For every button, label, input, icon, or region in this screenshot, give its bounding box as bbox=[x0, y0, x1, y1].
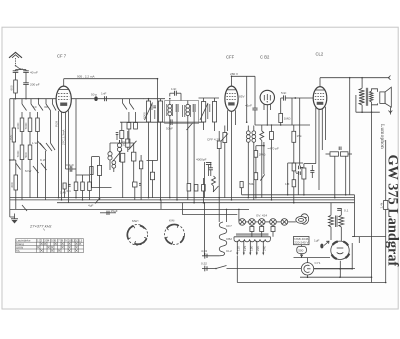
resistor small left det bbox=[240, 182, 243, 195]
capacitor osc upper bbox=[116, 133, 119, 140]
svg-text:≈470 pF: ≈470 pF bbox=[268, 146, 279, 150]
svg-text:4µF: 4µF bbox=[88, 204, 94, 208]
wire speaker return bbox=[356, 95, 392, 283]
resistor osc anode bbox=[97, 157, 101, 200]
oscillator coil L2 bbox=[117, 140, 121, 162]
main bus 1 bbox=[10, 197, 355, 199]
bandfilter 1 box L bbox=[142, 99, 150, 198]
bandfilter 2 can outline bbox=[165, 101, 199, 124]
svg-text:CF 7: CF 7 bbox=[57, 54, 67, 59]
resistor 1,4k right rail bbox=[380, 140, 388, 283]
bandfilter hatching extra bbox=[152, 104, 210, 120]
speaker bbox=[380, 87, 392, 107]
resistor 15k det bbox=[292, 125, 302, 203]
tube V2 pin leads bbox=[228, 110, 236, 200]
resistor zig screen bbox=[212, 176, 216, 192]
oscillator coil box wires bbox=[92, 157, 112, 188]
label IF freq bbox=[29, 223, 51, 230]
svg-text:≈1nF: ≈1nF bbox=[245, 104, 252, 108]
wire bottom right h2 bbox=[300, 261, 372, 277]
mains switch bbox=[215, 266, 355, 270]
tube V4 pin leads bbox=[316, 107, 326, 190]
label 4uF bbox=[88, 199, 99, 208]
capacitor 41nF bbox=[23, 70, 38, 75]
capacitor bf2 a bbox=[176, 104, 178, 124]
bandfilter 3 trimmer bbox=[200, 103, 208, 120]
resistor 600 bbox=[10, 73, 18, 99]
mixer grid line bbox=[120, 121, 204, 123]
capacitor 0,1uF left bbox=[66, 163, 77, 172]
trimmer arrow grid bbox=[187, 123, 193, 130]
svg-text:50 p: 50 p bbox=[91, 92, 97, 96]
capacitor padder top bbox=[170, 87, 181, 101]
bandfilter 3 box L bbox=[202, 98, 206, 130]
capacitor small mid bbox=[139, 183, 142, 185]
svg-text:2MΩ: 2MΩ bbox=[259, 153, 266, 157]
svg-text:1,4k: 1,4k bbox=[380, 202, 384, 208]
wire anode line 905 bbox=[64, 74, 158, 78]
mains transformer winding bbox=[234, 234, 271, 242]
switch S6 bbox=[52, 99, 54, 104]
svg-text:7: 7 bbox=[58, 239, 60, 243]
main bus 3 bbox=[57, 202, 355, 204]
resistor cathode CL2 bbox=[295, 164, 316, 195]
output transformer core bbox=[366, 88, 367, 106]
capacitor 200pF bbox=[23, 73, 40, 99]
svg-text:4: 4 bbox=[48, 239, 50, 243]
capacitor 4000pF bbox=[196, 158, 211, 165]
misc vertical feeders bbox=[161, 162, 227, 256]
svg-text:110: 110 bbox=[236, 246, 240, 251]
capacitor 0,1 small bbox=[67, 184, 72, 193]
table header text bbox=[16, 239, 83, 253]
oscillator coil L1 bbox=[108, 143, 112, 170]
resistor osc upper b bbox=[122, 131, 130, 152]
resistor mixer b bbox=[134, 112, 138, 129]
svg-text:0,1µF: 0,1µF bbox=[66, 163, 74, 167]
table chart bbox=[16, 239, 84, 253]
svg-text:7000: 7000 bbox=[16, 150, 20, 157]
svg-text:27×377 kHz: 27×377 kHz bbox=[29, 223, 51, 228]
capacitor bead 50p bbox=[91, 92, 98, 101]
switch blade AF bbox=[260, 174, 264, 180]
capacitor 15uF bbox=[100, 209, 118, 215]
tube CY1 bbox=[301, 261, 320, 275]
wire input bus bbox=[10, 98, 57, 100]
switch column mixer bbox=[123, 99, 135, 110]
svg-text:600: 600 bbox=[10, 182, 14, 187]
bandfilter 2 coil b bbox=[186, 101, 190, 124]
capacitor cathode bbox=[310, 165, 314, 178]
svg-text:0,1: 0,1 bbox=[344, 209, 349, 213]
svg-text:CL2: CL2 bbox=[316, 52, 324, 57]
capacitor can 500 bbox=[297, 245, 307, 257]
svg-text:1000: 1000 bbox=[16, 122, 20, 129]
resistor 7M bbox=[81, 175, 85, 200]
IF transformer coil b bbox=[252, 126, 256, 200]
wire bf3 top bbox=[199, 97, 220, 99]
svg-text:1µF: 1µF bbox=[314, 239, 320, 243]
svg-text:C B2: C B2 bbox=[260, 54, 270, 59]
tube V2 CFF bbox=[225, 86, 238, 111]
lamp dropper resistors bbox=[250, 225, 275, 237]
resistor screen bbox=[217, 131, 221, 222]
resistor 1000 bbox=[16, 112, 24, 132]
svg-text:220-240 V: 220-240 V bbox=[294, 240, 309, 244]
svg-text:40 nF: 40 nF bbox=[30, 70, 38, 74]
output transformer secondary bbox=[370, 89, 378, 105]
scale lamp oval bbox=[296, 217, 306, 224]
svg-text:M.W: M.W bbox=[25, 169, 31, 173]
AF coupling cluster: resistor 2M bbox=[254, 146, 266, 173]
bandfilter 1 box R bbox=[158, 99, 162, 200]
svg-text:7000: 7000 bbox=[24, 122, 28, 129]
mains terminal A bbox=[201, 249, 223, 259]
wire det feeders bbox=[288, 163, 303, 195]
resistor 500 bbox=[24, 145, 32, 160]
resistor right b bbox=[335, 152, 352, 198]
resistor 600b bbox=[10, 175, 18, 209]
resistor 10nF tail bbox=[187, 184, 191, 192]
wire CY1 top bbox=[294, 254, 331, 263]
lamp wiring bbox=[246, 221, 296, 223]
svg-text:5: 5 bbox=[51, 239, 53, 243]
svg-text:CFF: CFF bbox=[226, 54, 235, 59]
switch blade mid bbox=[40, 143, 47, 151]
resistor mixer a bbox=[127, 112, 131, 143]
svg-text:50k: 50k bbox=[249, 182, 254, 186]
resistor 50 bbox=[133, 182, 137, 200]
svg-text:150: 150 bbox=[249, 246, 253, 251]
svg-text:30: 30 bbox=[44, 105, 48, 109]
resistor osc grid bbox=[90, 167, 93, 175]
svg-text:9: 9 bbox=[65, 239, 67, 243]
svg-text:0,1: 0,1 bbox=[67, 189, 72, 193]
IF transformer coil a bbox=[246, 126, 250, 198]
svg-text:MW↑: MW↑ bbox=[132, 219, 139, 223]
capacitor tone b bbox=[296, 171, 300, 175]
svg-text:220: 220 bbox=[256, 246, 260, 251]
phono jack oval bbox=[300, 214, 308, 224]
switch blade bbox=[31, 104, 36, 111]
detector bus bbox=[255, 124, 310, 126]
capacitor det a bbox=[270, 125, 274, 200]
svg-text:CL2: CL2 bbox=[226, 249, 232, 253]
switch S2 bbox=[21, 99, 23, 104]
switch S7 bbox=[16, 163, 21, 170]
svg-text:1,45: 1,45 bbox=[60, 191, 66, 195]
heater chain squiggle bbox=[219, 222, 232, 256]
switch blade wave a bbox=[51, 143, 56, 150]
svg-text:GV. 424: GV. 424 bbox=[256, 214, 267, 218]
svg-text:P.08: P.08 bbox=[55, 121, 59, 127]
svg-text:15k: 15k bbox=[297, 134, 302, 138]
svg-text:K.W: K.W bbox=[40, 158, 46, 162]
resistor 600 rail bbox=[8, 99, 15, 160]
capacitor 40nF bbox=[13, 67, 24, 72]
switch blade mid2 bbox=[46, 143, 52, 151]
main bus 5 bbox=[183, 214, 238, 216]
capacitor 1uF rect bbox=[314, 239, 329, 249]
dial lamp 2 bbox=[249, 219, 256, 226]
switch blade wave b bbox=[41, 163, 47, 170]
dial lamp 3 bbox=[258, 219, 265, 226]
svg-text:500: 500 bbox=[298, 249, 303, 253]
dial lamp 4 bbox=[270, 219, 277, 226]
bus 5 drop bbox=[182, 203, 184, 215]
switch blade bbox=[53, 104, 57, 111]
capacitor 50pF grid bbox=[166, 119, 173, 130]
svg-text:CY1: CY1 bbox=[315, 261, 321, 265]
ground symbol bbox=[10, 214, 18, 224]
bandfilter 3 box R bbox=[212, 98, 216, 131]
tube V3 CB2 bbox=[260, 90, 274, 104]
right bus stub bbox=[242, 195, 355, 237]
resistor tail3 bbox=[202, 178, 206, 203]
svg-text:4000pF: 4000pF bbox=[196, 158, 207, 162]
tube V4 anode lead bbox=[319, 78, 321, 87]
capacitor 5nF bbox=[281, 91, 292, 101]
tube V1 pin leads bbox=[59, 111, 69, 203]
tube V4 CL2 bbox=[313, 87, 327, 110]
capacitor bf2 b bbox=[193, 104, 195, 124]
main bus 4 bbox=[10, 208, 249, 210]
svg-text:3: 3 bbox=[44, 239, 46, 243]
power loop left bbox=[236, 256, 238, 283]
table x marks bbox=[37, 243, 81, 252]
svg-text:13: 13 bbox=[79, 239, 83, 243]
main bus 2 bbox=[10, 199, 355, 201]
oscillator coil L1b bbox=[112, 161, 116, 172]
dial lamp 1 bbox=[239, 219, 246, 226]
svg-text:1nF: 1nF bbox=[101, 91, 106, 95]
filter choke core bbox=[336, 216, 337, 228]
svg-text:GW 375 Landgraf: GW 375 Landgraf bbox=[385, 155, 400, 267]
trimmer arrow osc upper bbox=[129, 141, 137, 150]
wire HT drop bbox=[157, 79, 159, 161]
mains taps bbox=[236, 241, 266, 256]
wire antenna caps top bbox=[16, 69, 27, 71]
switch S1 antenna bbox=[15, 65, 21, 69]
svg-text:600: 600 bbox=[8, 135, 12, 140]
wire rect top feed bbox=[352, 237, 386, 243]
antenna bbox=[9, 52, 22, 65]
wire AF junction bbox=[256, 142, 279, 174]
capacitor bf1 bbox=[153, 106, 156, 108]
resistor tail2 bbox=[194, 185, 198, 192]
switch blade bbox=[46, 104, 51, 111]
svg-text:85V: 85V bbox=[239, 95, 245, 99]
switch S4 bbox=[38, 99, 40, 104]
switch S3 bbox=[30, 99, 32, 104]
dial lamp feed bbox=[238, 209, 240, 222]
svg-text:1MΩ: 1MΩ bbox=[284, 117, 291, 121]
trimmer arrow osc bbox=[113, 150, 122, 161]
capacitor screen bbox=[209, 162, 213, 176]
svg-text:Lumophon: Lumophon bbox=[379, 124, 385, 149]
tube V3 pins bbox=[264, 104, 271, 125]
wire mid links bbox=[22, 132, 44, 149]
switch S8 bbox=[22, 205, 27, 211]
resistor 50k bbox=[249, 173, 258, 198]
switch blade det bbox=[213, 186, 219, 192]
filter choke 2 bbox=[339, 208, 344, 243]
volume pot bbox=[221, 126, 228, 198]
rectifier CY2 bbox=[331, 241, 349, 259]
resistor IF zig bbox=[260, 125, 264, 198]
bandfilter 1 trimmer bbox=[145, 103, 153, 121]
tube V1 anode top lead bbox=[63, 79, 65, 86]
resistor grid CL2 bbox=[285, 163, 296, 187]
svg-text:5nF: 5nF bbox=[281, 91, 286, 95]
resistor osc pad1 bbox=[121, 153, 125, 197]
resistor 1k bbox=[139, 155, 142, 200]
output transformer primary bbox=[359, 78, 365, 113]
rotary switch W1 bbox=[127, 219, 148, 245]
svg-text:200 pF: 200 pF bbox=[30, 83, 40, 87]
svg-text:L.W: L.W bbox=[32, 141, 38, 145]
resistor right a bbox=[326, 152, 339, 156]
capacitor tone a bbox=[299, 166, 304, 170]
svg-text:10: 10 bbox=[33, 105, 37, 109]
switch blade wave c bbox=[33, 166, 39, 173]
svg-text:1nF: 1nF bbox=[171, 87, 176, 91]
dial lamp 5 bbox=[281, 219, 288, 226]
svg-text:30: 30 bbox=[20, 67, 24, 71]
rotary switch W2 bbox=[165, 218, 185, 244]
bandfilter 2 coil a bbox=[168, 101, 172, 124]
resistor 30u bbox=[36, 112, 40, 132]
svg-text:6: 6 bbox=[55, 239, 57, 243]
svg-text:125: 125 bbox=[243, 246, 247, 251]
resistor 5k bbox=[147, 161, 158, 198]
wire left rail bbox=[9, 99, 11, 217]
resistor 15k bbox=[76, 175, 91, 200]
svg-text:KW↑: KW↑ bbox=[169, 218, 176, 222]
bandfilter 1 top wire bbox=[143, 98, 165, 100]
resistor 1,45 bbox=[60, 183, 66, 198]
wire bottom right h1 bbox=[314, 243, 353, 269]
svg-text:8: 8 bbox=[62, 239, 64, 243]
coupling cap 10nF bbox=[245, 76, 258, 125]
capacitor right small bbox=[339, 147, 341, 151]
wire bottom right h3 bbox=[237, 282, 385, 284]
svg-text:27C,1,3mA: 27C,1,3mA bbox=[62, 129, 66, 145]
wire lower links bbox=[10, 160, 30, 200]
capacitor 0,1uF right bbox=[337, 209, 348, 213]
capacitor 1nF series bbox=[101, 91, 106, 101]
wire det right bbox=[292, 97, 313, 166]
filter choke 1 bbox=[329, 203, 334, 240]
tube V2 anode lead bbox=[232, 76, 256, 122]
tube V1 CF7 bbox=[56, 86, 71, 112]
svg-text:905 , 2,2 mA: 905 , 2,2 mA bbox=[77, 74, 95, 78]
bandfilter 2 tail wires bbox=[170, 124, 194, 203]
wire grid line through tube bbox=[71, 98, 143, 100]
svg-text:240: 240 bbox=[262, 246, 266, 251]
wire wave column a bbox=[38, 111, 51, 200]
svg-text:2: 2 bbox=[41, 239, 43, 243]
output HT line bbox=[320, 76, 391, 80]
resistor 50n bbox=[74, 99, 78, 198]
resistor osc upper a bbox=[120, 122, 124, 143]
svg-text:CB2: CB2 bbox=[226, 237, 232, 241]
wire osc top bbox=[110, 140, 134, 143]
NSB box bbox=[294, 237, 310, 245]
resistor 1M bbox=[279, 98, 291, 125]
wire HT down right bbox=[349, 78, 351, 195]
resistor 7000 bbox=[24, 112, 32, 132]
svg-text:0,52: 0,52 bbox=[201, 262, 207, 266]
switch blade bbox=[22, 104, 27, 111]
svg-text:CF7: CF7 bbox=[226, 224, 232, 228]
svg-text:500: 500 bbox=[24, 152, 28, 157]
svg-text:600: 600 bbox=[10, 85, 14, 90]
mains terminal B bbox=[201, 262, 216, 272]
switch S5 bbox=[45, 99, 47, 104]
resistor osc pad2 bbox=[132, 143, 136, 182]
resistor 7000b bbox=[16, 145, 24, 160]
switch blade bbox=[39, 104, 44, 111]
svg-text:1: 1 bbox=[37, 239, 39, 243]
